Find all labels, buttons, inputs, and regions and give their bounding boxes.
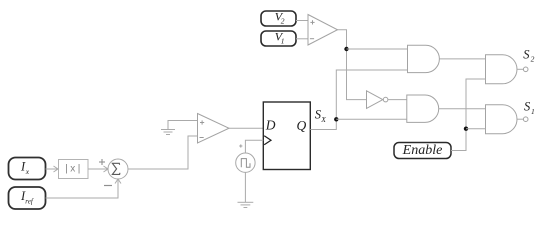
- plus label at summer: [99, 159, 105, 165]
- svg-text:X: X: [320, 115, 326, 124]
- label SX: [315, 107, 327, 124]
- op-amp U2 comparator: [198, 114, 230, 144]
- wire V1 to comparator: [296, 38, 308, 40]
- wire junction to AND gate G1 input A: [347, 48, 408, 50]
- wire summer to op-amp inverting input: [128, 136, 198, 169]
- node SX junction: [334, 117, 338, 121]
- inverter U4: [367, 91, 388, 109]
- ground (op-amp reference): [161, 130, 175, 135]
- wire comparator output riser: [338, 30, 367, 100]
- wire ground to op-amp non-inverting input: [168, 121, 198, 130]
- wire Iref to summer bottom: [46, 179, 122, 198]
- input box V2: [261, 10, 296, 26]
- input box Ix: [9, 158, 46, 180]
- svg-text:ref: ref: [25, 198, 34, 206]
- AND gate G1: [408, 45, 440, 72]
- node comparator junction: [344, 47, 348, 51]
- svg-text:D: D: [265, 118, 276, 133]
- svg-text:1: 1: [281, 36, 285, 45]
- svg-text:x: x: [25, 167, 30, 176]
- wire Enable junction to S1 gate input B: [466, 128, 486, 130]
- wire SX junction to AND gate G2 input B: [336, 118, 407, 120]
- svg-text:2: 2: [531, 55, 535, 64]
- wire Q output to SX riser: [310, 70, 407, 130]
- svg-text:S: S: [523, 47, 530, 61]
- minus label at summer: [104, 185, 112, 187]
- svg-text:S: S: [524, 99, 531, 113]
- svg-text:2: 2: [281, 16, 285, 25]
- label S1: [524, 99, 535, 116]
- label S2: [523, 47, 534, 63]
- wire op-amp to D input: [229, 127, 263, 129]
- clock source V3: [236, 144, 255, 172]
- wire Ix to abs block: [46, 166, 59, 172]
- svg-text:Enable: Enable: [402, 143, 443, 158]
- comparator U1: [308, 15, 338, 46]
- wire G1 output to S2 gate: [439, 58, 485, 60]
- svg-text:Q: Q: [297, 118, 307, 133]
- wire abs block to summer: [88, 166, 108, 172]
- Enable box: [394, 143, 451, 159]
- wire G2 output to S1 gate: [439, 108, 486, 110]
- svg-text:|x|: |x|: [65, 164, 82, 175]
- AND gate G2: [407, 95, 439, 122]
- input box V1: [261, 30, 296, 46]
- input box Iref: [9, 187, 46, 209]
- ground (clock source): [238, 172, 254, 207]
- wire Enable riser: [451, 79, 486, 151]
- wire inverter output to AND gate G2 input A: [388, 99, 407, 101]
- AND gate S2 output stage: [486, 55, 529, 84]
- AND gate S1 output stage: [486, 105, 529, 134]
- abs block |x|: [59, 160, 89, 179]
- node Enable junction: [464, 127, 468, 131]
- svg-text:1: 1: [531, 107, 535, 116]
- D flip-flop U3: [263, 102, 310, 170]
- summer sigma: [108, 159, 128, 179]
- wire clock source to flip-flop clock: [245, 140, 263, 153]
- wire V2 to comparator: [296, 20, 308, 22]
